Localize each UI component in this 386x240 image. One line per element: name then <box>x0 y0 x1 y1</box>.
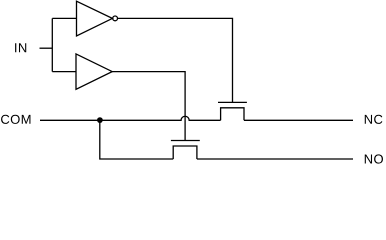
NO label <box>365 154 383 163</box>
NO MOSFET channel <box>173 146 197 159</box>
COM label <box>1 115 30 124</box>
wire: buffer output to NO switch gate <box>112 72 185 141</box>
NC MOSFET gate bar <box>218 101 247 103</box>
wire: COM branch down to NO switch <box>100 120 173 159</box>
wire: NO output line <box>197 158 353 160</box>
wire: inverter input <box>52 17 76 19</box>
wire: COM line left segment with crossover hop <box>40 116 221 120</box>
junction dot on COM <box>97 117 103 123</box>
NO MOSFET gate bar <box>171 140 200 142</box>
IN label <box>15 43 26 52</box>
wire: buffer input <box>52 71 76 73</box>
wire: IN stub <box>40 47 53 49</box>
NC MOSFET channel <box>221 108 244 121</box>
inverter U1 triangle <box>77 1 113 36</box>
wire: inverter output to NC switch gate <box>118 18 233 102</box>
wire: NC output line <box>244 119 353 121</box>
inverter bubble <box>113 16 118 21</box>
wire: input split vertical <box>51 18 53 71</box>
buffer U2 triangle <box>76 54 112 89</box>
NC label <box>365 115 383 124</box>
